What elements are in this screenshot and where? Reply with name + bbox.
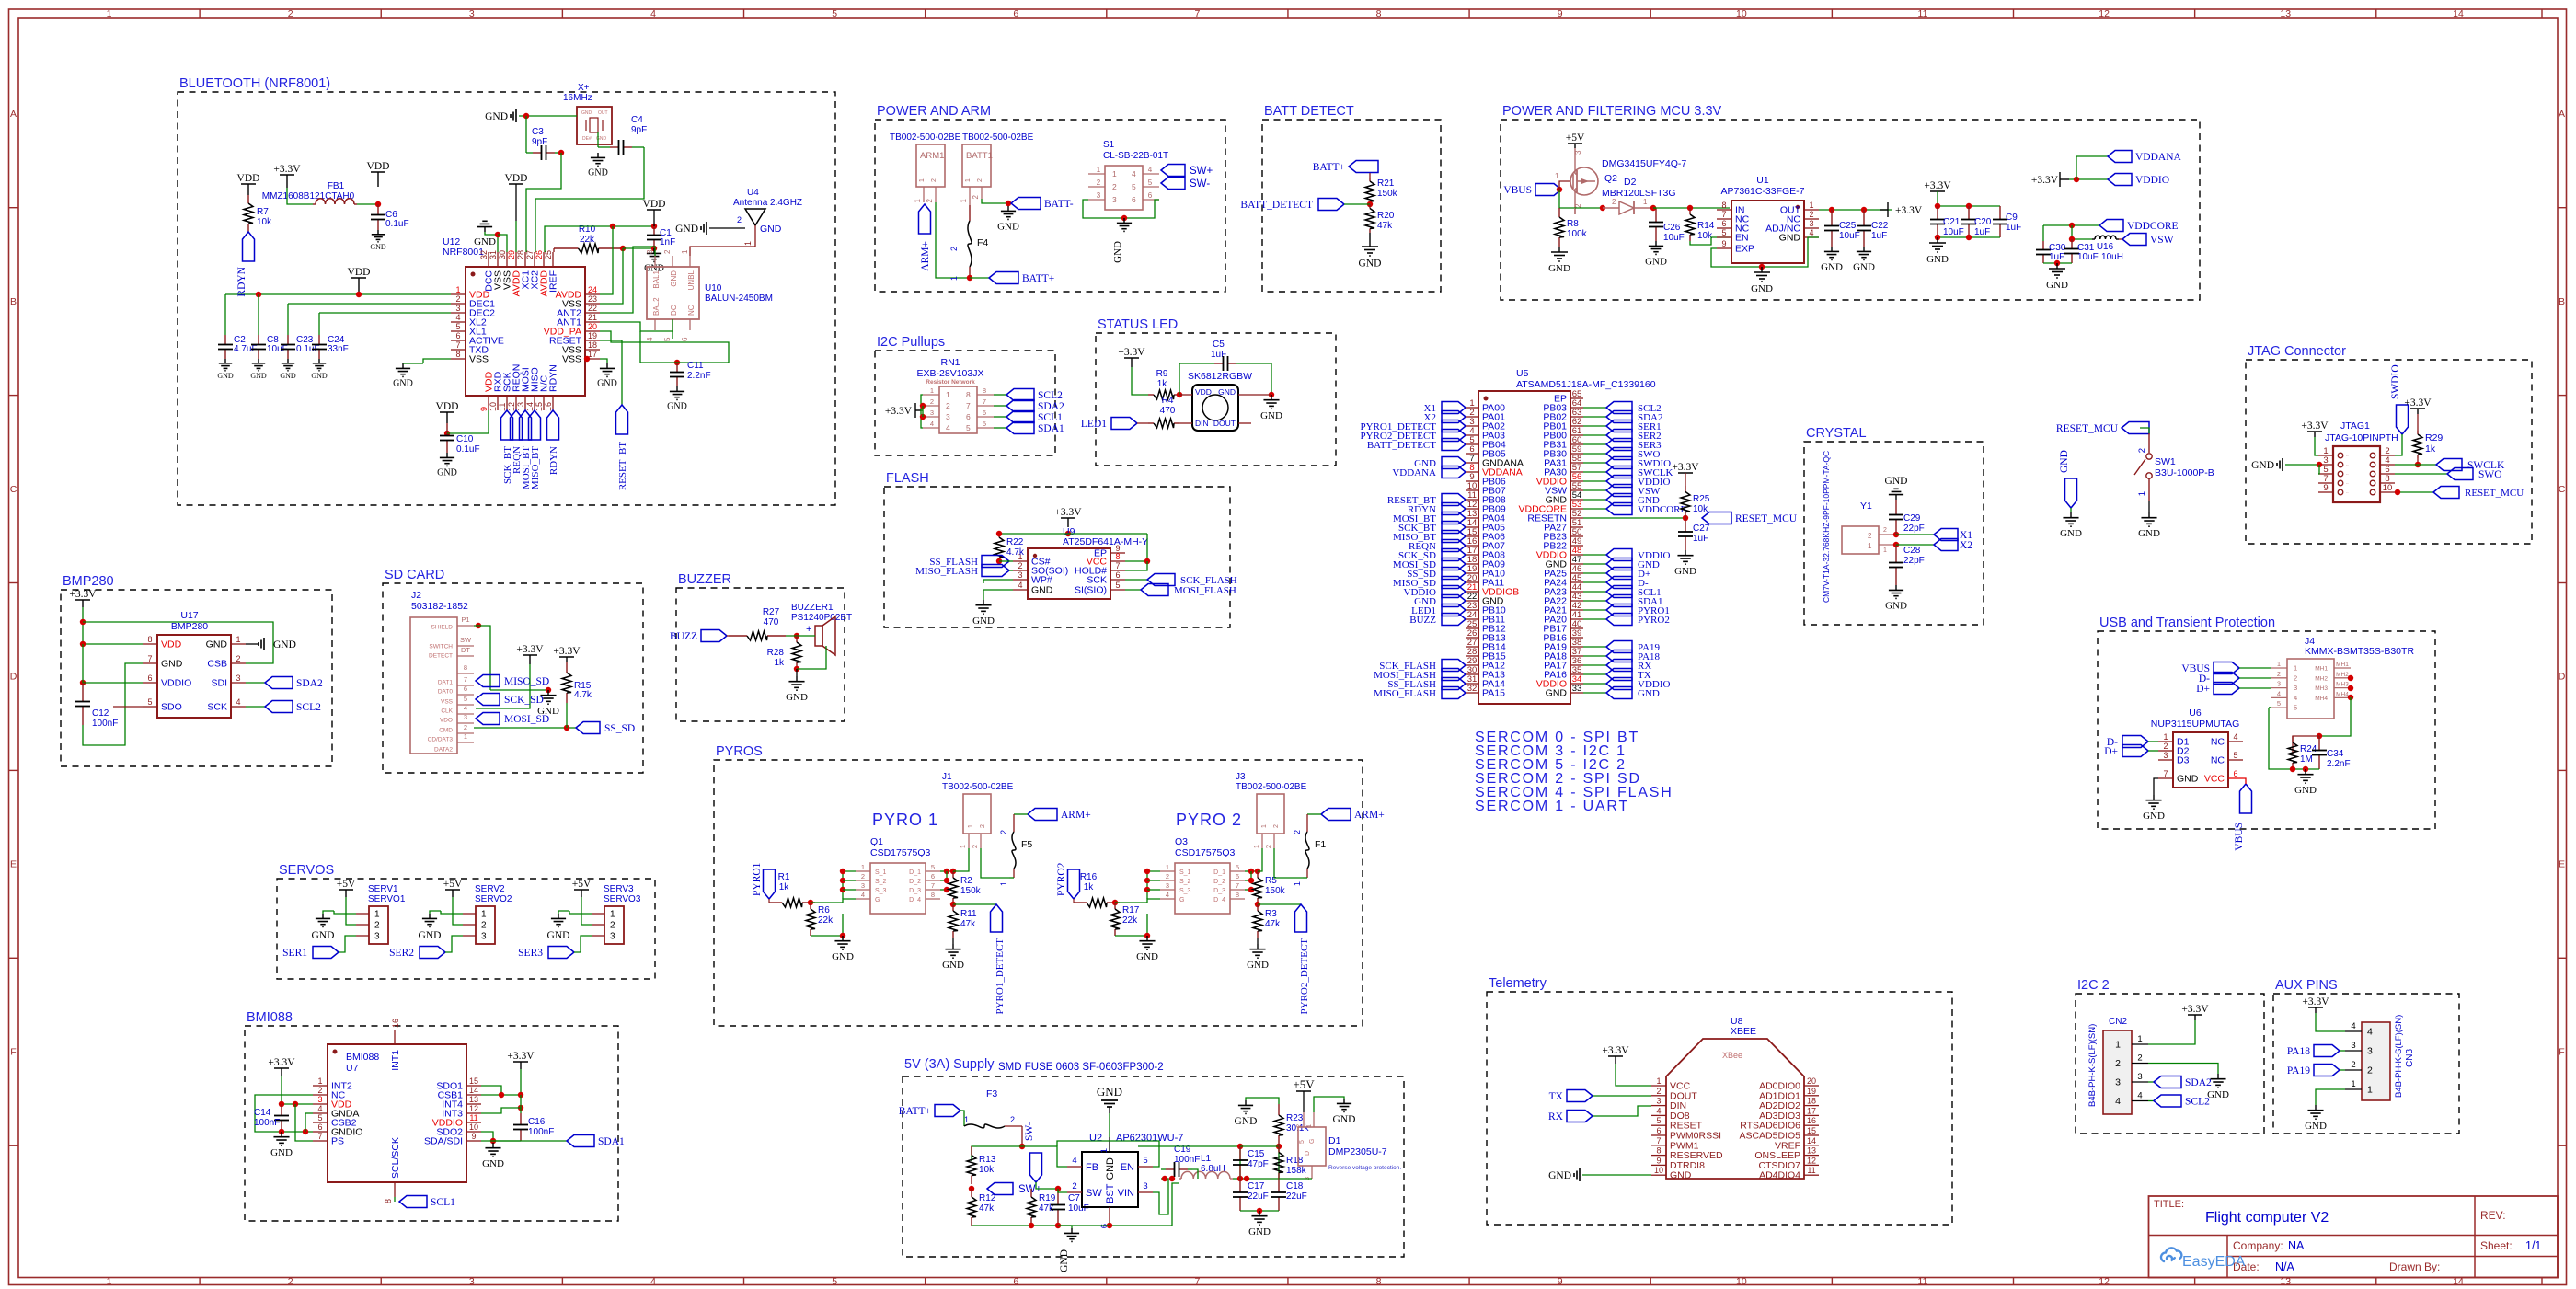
svg-text:RESET_BT: RESET_BT bbox=[617, 442, 628, 490]
svg-text:GND: GND bbox=[832, 951, 854, 962]
ground under C27 bbox=[1685, 550, 1686, 556]
resistor R18 bbox=[1278, 1146, 1280, 1153]
svg-text:2: 2 bbox=[1166, 872, 1169, 880]
svg-text:5: 5 bbox=[1721, 228, 1726, 237]
svg-text:+3.3V: +3.3V bbox=[69, 589, 97, 600]
svg-text:D_2: D_2 bbox=[909, 879, 921, 885]
svg-text:30: 30 bbox=[498, 250, 507, 259]
power flag +3.3V (FB1) bbox=[280, 174, 294, 176]
net flag SW+ bbox=[1161, 165, 1185, 177]
RN1 pin 8 bbox=[977, 394, 994, 396]
svg-text:MISO_BT: MISO_BT bbox=[530, 446, 541, 489]
net flag SW- (rotated) bbox=[1030, 1153, 1042, 1182]
svg-text:12: 12 bbox=[2099, 8, 2110, 19]
power +3.3V bmp280 bbox=[75, 599, 90, 601]
svg-text:7: 7 bbox=[147, 654, 152, 663]
svg-text:DC: DC bbox=[670, 305, 678, 316]
JTAG1 pin 2 bbox=[2380, 455, 2395, 456]
svg-text:C3: C3 bbox=[532, 127, 544, 137]
svg-text:CMD: CMD bbox=[439, 728, 453, 734]
svg-text:10: 10 bbox=[1736, 1276, 1747, 1287]
U5 pin 29 PA12 bbox=[1466, 664, 1478, 666]
svg-text:GND: GND bbox=[581, 110, 592, 116]
svg-text:3: 3 bbox=[861, 881, 865, 890]
transistor Q2 DMG3415UFY4Q-7 bbox=[1570, 167, 1598, 195]
svg-text:1k: 1k bbox=[774, 658, 785, 668]
capacitor C21 bbox=[1937, 206, 1938, 220]
svg-text:G: G bbox=[1179, 897, 1184, 903]
flash pin 4 GND bbox=[1013, 589, 1028, 591]
svg-text:1: 1 bbox=[1643, 198, 1648, 206]
svg-text:F3: F3 bbox=[986, 1088, 997, 1099]
capacitor C10 bbox=[446, 423, 448, 436]
svg-text:8: 8 bbox=[455, 350, 460, 359]
JTAG1 pin 5 bbox=[2318, 473, 2333, 475]
svg-text:VDD: VDD bbox=[436, 401, 459, 412]
wire +3.3V to pin4 bbox=[2316, 1013, 2345, 1031]
net flag REQN (U5 pin 16) bbox=[1442, 540, 1466, 552]
svg-text:GND: GND bbox=[675, 224, 698, 235]
wire R10 to VSS pin23 bbox=[600, 248, 623, 304]
svg-text:1k: 1k bbox=[2425, 443, 2436, 455]
power +5V servo1 bbox=[339, 889, 353, 891]
svg-text:12: 12 bbox=[469, 1104, 478, 1113]
U12 pin 1 VDD bbox=[451, 293, 466, 295]
U8 pin 2 DOUT bbox=[1651, 1095, 1666, 1097]
svg-text:U5: U5 bbox=[1516, 368, 1529, 379]
wire source to ground Q1 bbox=[811, 914, 843, 936]
svg-text:5: 5 bbox=[1236, 863, 1239, 871]
svg-text:12: 12 bbox=[1807, 1156, 1816, 1165]
svg-text:2: 2 bbox=[2137, 1053, 2142, 1064]
svg-text:23: 23 bbox=[588, 294, 597, 304]
U12 pin 32 DCC bbox=[488, 252, 489, 267]
svg-text:+3.3V: +3.3V bbox=[2302, 996, 2329, 1007]
svg-text:PYRO1: PYRO1 bbox=[752, 862, 763, 896]
wire VBUS to mosfet gate bbox=[1559, 190, 1575, 208]
svg-text:1: 1 bbox=[1261, 824, 1268, 828]
svg-text:BUZZER1: BUZZER1 bbox=[791, 603, 834, 613]
capacitor C22 bbox=[1863, 210, 1865, 226]
svg-text:3: 3 bbox=[236, 673, 240, 683]
svg-text:+3.3V: +3.3V bbox=[1924, 180, 1951, 191]
svg-text:GND: GND bbox=[1248, 1226, 1271, 1237]
svg-text:47k: 47k bbox=[1377, 221, 1393, 231]
JTAG1 pin 6 bbox=[2380, 473, 2395, 475]
U17 pin 6 VDDIO bbox=[143, 682, 157, 684]
ground VDDCORE caps bbox=[2056, 263, 2058, 269]
ground under R8 bbox=[1558, 247, 1560, 252]
svg-text:RDYN: RDYN bbox=[236, 266, 247, 296]
wire cap bank bottom bbox=[1938, 236, 2000, 238]
U8 pin 18 AD2DIO2 bbox=[1804, 1105, 1819, 1107]
power +3.3V BMI right bbox=[513, 1061, 528, 1063]
power flag +5V bbox=[1568, 143, 1582, 144]
power +3.3V status led bbox=[1124, 357, 1139, 359]
svg-text:MMZ1608B121CTAH0: MMZ1608B121CTAH0 bbox=[262, 191, 355, 201]
U2 pin 5 EN bbox=[1138, 1166, 1153, 1168]
svg-text:2: 2 bbox=[663, 249, 672, 254]
svg-text:9: 9 bbox=[1558, 8, 1563, 19]
wire J1 pin1 to drain bbox=[953, 848, 969, 871]
wire RESETN to RESET_MCU bbox=[1583, 517, 1685, 519]
svg-text:16: 16 bbox=[391, 1019, 400, 1028]
wire GND pin7 loop bbox=[83, 663, 143, 745]
svg-text:SDA2: SDA2 bbox=[296, 678, 323, 689]
svg-text:BUZZ: BUZZ bbox=[1409, 615, 1436, 626]
wire top loop to CSB bbox=[83, 622, 273, 663]
resistor R15 bbox=[566, 662, 568, 673]
svg-text:LED1: LED1 bbox=[1081, 419, 1107, 430]
svg-text:+5V: +5V bbox=[1566, 132, 1585, 144]
net flag SER3 bbox=[548, 947, 574, 959]
net flag X1 (U5 pin 1) bbox=[1442, 402, 1466, 414]
U5 pin 36 PA17 bbox=[1570, 664, 1583, 666]
svg-text:2: 2 bbox=[971, 845, 979, 848]
wire caps bottom bbox=[2043, 262, 2072, 264]
svg-text:100nF: 100nF bbox=[1174, 1155, 1200, 1165]
ground under R11 bbox=[952, 938, 954, 944]
svg-text:AP62301WU-7: AP62301WU-7 bbox=[1116, 1133, 1183, 1144]
svg-text:VSS: VSS bbox=[562, 354, 581, 365]
svg-text:22uF: 22uF bbox=[1286, 1191, 1307, 1202]
wire VDD rail left bbox=[282, 1076, 313, 1104]
svg-text:R29: R29 bbox=[2425, 432, 2443, 443]
U5 pin 15 PA06 bbox=[1466, 535, 1478, 537]
svg-text:JTAG1: JTAG1 bbox=[2340, 420, 2370, 432]
svg-text:C10: C10 bbox=[456, 434, 474, 444]
section box: AUX PINS bbox=[2273, 994, 2459, 1134]
svg-text:13: 13 bbox=[516, 402, 525, 411]
svg-text:2: 2 bbox=[236, 654, 240, 663]
svg-text:GND: GND bbox=[1097, 1085, 1122, 1099]
section box: CRYSTAL bbox=[1804, 442, 1984, 625]
svg-text:U2: U2 bbox=[1089, 1133, 1102, 1144]
svg-text:28: 28 bbox=[516, 250, 525, 259]
svg-text:BST: BST bbox=[1105, 1183, 1116, 1203]
svg-text:GND: GND bbox=[1548, 263, 1570, 274]
svg-text:7: 7 bbox=[1194, 1276, 1200, 1287]
U5 pin 5 PB04 bbox=[1466, 443, 1478, 445]
svg-text:USB and Transient Protection: USB and Transient Protection bbox=[2099, 616, 2275, 630]
svg-text:16: 16 bbox=[1807, 1116, 1816, 1125]
wire to C2 bbox=[224, 294, 226, 335]
svg-text:100nF: 100nF bbox=[528, 1127, 554, 1137]
svg-text:R1: R1 bbox=[778, 872, 790, 882]
svg-text:10uF: 10uF bbox=[1943, 227, 1964, 237]
wire C4 to XC2 bbox=[535, 147, 644, 252]
U8 pin 1 VCC bbox=[1651, 1085, 1666, 1087]
svg-text:1: 1 bbox=[2367, 1085, 2373, 1096]
U5 pin 18 PA09 bbox=[1466, 563, 1478, 565]
svg-text:RESET_MCU: RESET_MCU bbox=[1735, 513, 1798, 524]
svg-text:3: 3 bbox=[1166, 881, 1169, 890]
U12 pin 15 N/C bbox=[543, 396, 545, 410]
svg-text:3: 3 bbox=[2294, 684, 2297, 692]
svg-text:6: 6 bbox=[983, 409, 986, 417]
U5 pin 10 PB07 bbox=[1466, 489, 1478, 491]
svg-text:1: 1 bbox=[1555, 172, 1559, 180]
net flag X1 bbox=[1896, 534, 1934, 535]
net flag D- (J4) bbox=[2214, 673, 2239, 685]
JTAG1 pin 8 bbox=[2380, 482, 2395, 484]
J4 pin MH1 bbox=[2334, 667, 2351, 669]
U1 pin 9 EXP bbox=[1717, 247, 1731, 249]
svg-text:SERVOS: SERVOS bbox=[279, 863, 334, 878]
ground under C10 bbox=[446, 453, 448, 457]
svg-text:R21: R21 bbox=[1377, 178, 1395, 189]
RN1 pin 6 bbox=[977, 416, 994, 418]
svg-text:ARM+: ARM+ bbox=[1354, 810, 1385, 821]
svg-text:BATT+: BATT+ bbox=[899, 1106, 931, 1117]
U5 pin 8 VDDANA bbox=[1466, 471, 1478, 473]
svg-text:U6: U6 bbox=[2189, 708, 2202, 719]
svg-text:24: 24 bbox=[588, 285, 597, 294]
wire source bus Q1 bbox=[843, 871, 856, 899]
ground flag xbee bbox=[1579, 1168, 1581, 1181]
J2 pin 7 bbox=[457, 685, 474, 686]
power flag VDD (R7) bbox=[241, 183, 256, 185]
svg-text:EasyEDA: EasyEDA bbox=[2182, 1254, 2246, 1270]
svg-text:BATT+: BATT+ bbox=[1022, 273, 1054, 284]
svg-text:PYRO 2: PYRO 2 bbox=[1176, 811, 1242, 829]
svg-text:4.7k: 4.7k bbox=[1006, 547, 1025, 558]
svg-text:RX: RX bbox=[1548, 1111, 1564, 1122]
svg-text:Sheet:: Sheet: bbox=[2480, 1239, 2513, 1252]
fuse F1 bbox=[1306, 814, 1308, 832]
svg-text:2: 2 bbox=[1883, 527, 1887, 534]
svg-text:1: 1 bbox=[1252, 845, 1260, 848]
svg-text:S_3: S_3 bbox=[875, 888, 887, 894]
svg-text:C5: C5 bbox=[1213, 340, 1225, 350]
U12 pin 23 VSS bbox=[585, 303, 600, 305]
capacitor C2 bbox=[224, 335, 226, 345]
connector CN3 B4B-PH-K-S(LF)(SN) bbox=[2362, 1022, 2390, 1100]
U12 pin 3 DEC2 bbox=[451, 312, 466, 314]
U2 pin 2 SW bbox=[1067, 1191, 1082, 1193]
U8 pin 10 GND bbox=[1651, 1174, 1666, 1176]
U8 pin 14 VREF bbox=[1804, 1145, 1819, 1146]
svg-text:5: 5 bbox=[2277, 699, 2281, 708]
U7 pin 12 INT3 bbox=[466, 1112, 481, 1114]
svg-text:CSD17575Q3: CSD17575Q3 bbox=[1175, 847, 1236, 858]
svg-text:GND: GND bbox=[1670, 1170, 1692, 1181]
svg-text:8: 8 bbox=[983, 386, 986, 395]
svg-text:16: 16 bbox=[544, 402, 553, 411]
svg-text:DOUT: DOUT bbox=[1213, 419, 1236, 428]
U7 pin 10 SDO2 bbox=[466, 1131, 481, 1133]
U5 pin 17 PA08 bbox=[1466, 554, 1478, 556]
svg-text:BALUN-2450BM: BALUN-2450BM bbox=[705, 293, 773, 304]
svg-text:1: 1 bbox=[2137, 491, 2147, 496]
U5 pin 52 RESETN bbox=[1570, 517, 1583, 519]
CN2 pin 2 bbox=[2132, 1063, 2148, 1065]
svg-text:R8: R8 bbox=[1567, 219, 1579, 229]
net flag MISO_SD (U5 pin 20) bbox=[1442, 577, 1466, 589]
net flag VBUS (U6) bbox=[2240, 784, 2252, 813]
svg-text:R12: R12 bbox=[979, 1193, 996, 1203]
U12 pin 27 XC2 bbox=[534, 252, 535, 267]
svg-text:5: 5 bbox=[2294, 704, 2297, 712]
section box: JTAG Connector bbox=[2246, 360, 2532, 544]
wire source to ground Q3 bbox=[1115, 914, 1147, 936]
ground flag jtag bbox=[2282, 458, 2283, 471]
U5 pin 38 PA19 bbox=[1570, 646, 1583, 648]
net flag PA19 bbox=[2314, 1065, 2340, 1076]
wire J3 pin1 to drain bbox=[1258, 848, 1262, 871]
capacitor C27 bbox=[1685, 518, 1686, 532]
wire BATT1 pin2 to BATT- bbox=[982, 199, 1008, 203]
wire AVDD rail bbox=[545, 226, 654, 252]
wire VDD pin bbox=[1179, 394, 1192, 396]
capacitor C14 bbox=[281, 1104, 282, 1116]
svg-text:R11: R11 bbox=[960, 909, 977, 919]
U12 pin 11 SCK bbox=[506, 396, 508, 410]
svg-text:GND: GND bbox=[942, 960, 964, 971]
svg-text:C25: C25 bbox=[1839, 221, 1857, 231]
U5 pin 45 PA24 bbox=[1570, 581, 1583, 583]
svg-text:GND: GND bbox=[312, 930, 335, 941]
svg-text:RDYN: RDYN bbox=[548, 446, 559, 475]
svg-text:1: 1 bbox=[964, 1115, 969, 1124]
transistor D1 DMP2305U-7 bbox=[1298, 1127, 1326, 1166]
svg-text:D: D bbox=[1305, 1151, 1311, 1156]
svg-text:ARM1: ARM1 bbox=[920, 151, 944, 161]
svg-text:3: 3 bbox=[374, 932, 380, 942]
svg-text:DETECT: DETECT bbox=[429, 653, 453, 660]
svg-text:6: 6 bbox=[1721, 219, 1726, 228]
svg-text:GND: GND bbox=[437, 467, 457, 478]
svg-text:47k: 47k bbox=[979, 1203, 995, 1214]
svg-text:VBUS: VBUS bbox=[2234, 823, 2245, 851]
svg-text:2: 2 bbox=[1293, 830, 1302, 834]
wire MH ground net bbox=[2319, 697, 2351, 736]
net flag SDA2 (CN2) bbox=[2148, 1081, 2154, 1083]
wire output to D1 bbox=[1279, 1178, 1312, 1180]
net flag LED1 (U5 pin 23) bbox=[1442, 604, 1466, 616]
ground below crystal caps bbox=[1895, 585, 1897, 590]
wire DEC1 bbox=[288, 303, 451, 305]
U8 pin 11 AD4DIO4 bbox=[1804, 1174, 1819, 1176]
svg-text:7: 7 bbox=[1194, 8, 1200, 19]
svg-text:31: 31 bbox=[489, 250, 498, 259]
svg-text:BATT+: BATT+ bbox=[1313, 162, 1345, 173]
wire right rail bbox=[481, 1069, 521, 1095]
svg-text:0.1uF: 0.1uF bbox=[385, 219, 409, 229]
svg-text:2: 2 bbox=[1072, 1181, 1076, 1191]
section box: FLASH bbox=[884, 487, 1230, 627]
power +3.3V jtag right bbox=[2410, 408, 2425, 409]
fuse F5 bbox=[1013, 814, 1015, 832]
svg-text:5V (3A) Supply: 5V (3A) Supply bbox=[904, 1057, 995, 1072]
svg-text:6: 6 bbox=[455, 331, 460, 340]
svg-text:10uF: 10uF bbox=[1663, 233, 1685, 243]
svg-text:GND: GND bbox=[1136, 951, 1158, 962]
U5 pin 32 PA15 bbox=[1466, 692, 1478, 694]
svg-text:GND: GND bbox=[1112, 241, 1123, 263]
svg-text:10k: 10k bbox=[979, 1165, 995, 1175]
svg-text:MH4: MH4 bbox=[2315, 696, 2328, 702]
svg-text:7: 7 bbox=[464, 675, 467, 684]
svg-text:GND: GND bbox=[2138, 528, 2160, 539]
net flag SER2 bbox=[420, 947, 445, 959]
svg-text:2: 2 bbox=[2137, 448, 2147, 453]
ground flag antenna bbox=[706, 222, 707, 235]
wire PS tie high bbox=[295, 1104, 313, 1141]
svg-text:3: 3 bbox=[946, 412, 950, 421]
svg-text:VDO: VDO bbox=[440, 718, 453, 724]
svg-text:4: 4 bbox=[464, 704, 467, 712]
U8 pin 3 DIN bbox=[1651, 1105, 1666, 1107]
svg-text:2: 2 bbox=[980, 824, 986, 828]
resistor R17 22k bbox=[1114, 903, 1116, 909]
svg-text:MISO_FLASH: MISO_FLASH bbox=[915, 566, 978, 577]
svg-text:14: 14 bbox=[469, 1086, 478, 1095]
CN2 pin 1 bbox=[2132, 1043, 2148, 1045]
svg-text:6: 6 bbox=[1236, 872, 1239, 880]
svg-text:+5V: +5V bbox=[572, 879, 592, 890]
ground under C16 bbox=[492, 1143, 494, 1148]
svg-text:7: 7 bbox=[317, 1132, 322, 1141]
svg-text:RDYN: RDYN bbox=[548, 364, 559, 392]
section box: SERVOS bbox=[277, 879, 655, 979]
svg-text:DE#: DE# bbox=[582, 136, 592, 142]
svg-text:C21: C21 bbox=[1943, 217, 1961, 227]
U5 pin 23 PB10 bbox=[1466, 609, 1478, 611]
svg-text:10: 10 bbox=[489, 402, 498, 411]
flash pin 3 WP# bbox=[1013, 579, 1028, 581]
svg-text:8: 8 bbox=[464, 663, 467, 672]
svg-text:4: 4 bbox=[1656, 1106, 1661, 1115]
net flag SWDIO (U5 pin 58) bbox=[1583, 462, 1606, 464]
svg-text:1: 1 bbox=[2163, 732, 2168, 742]
wire S1 ground loop bbox=[1083, 200, 1159, 218]
svg-text:1: 1 bbox=[1306, 1124, 1313, 1128]
svg-text:2: 2 bbox=[926, 198, 934, 202]
svg-text:9pF: 9pF bbox=[631, 125, 647, 135]
net flag SCL2 bbox=[994, 394, 1006, 396]
svg-text:R28: R28 bbox=[767, 648, 785, 658]
RN1 pin 7 bbox=[977, 405, 994, 407]
net flag SS_SD (U5 pin 19) bbox=[1442, 568, 1466, 580]
svg-text:3: 3 bbox=[610, 932, 615, 942]
net flag RESET_MCU (jtag) bbox=[2395, 491, 2433, 493]
svg-text:TB002-500-02BE: TB002-500-02BE bbox=[890, 132, 961, 143]
svg-text:R13: R13 bbox=[979, 1155, 996, 1165]
svg-text:3: 3 bbox=[2367, 1046, 2373, 1057]
svg-text:GND: GND bbox=[250, 372, 267, 380]
svg-text:1k: 1k bbox=[1157, 379, 1168, 389]
svg-text:SER1: SER1 bbox=[282, 948, 307, 959]
svg-text:SCK_SD: SCK_SD bbox=[504, 695, 544, 706]
capacitor C29 bbox=[1895, 500, 1897, 515]
svg-text:1uF: 1uF bbox=[2006, 223, 2021, 233]
wire R14 to EN bbox=[1690, 237, 1730, 245]
svg-text:+3.3V: +3.3V bbox=[2301, 420, 2329, 432]
svg-text:20: 20 bbox=[588, 322, 597, 331]
RN1 pin 5 bbox=[977, 427, 994, 429]
wire ARM1 pin2 to BATT+ bbox=[936, 202, 972, 278]
svg-text:C14: C14 bbox=[254, 1108, 271, 1118]
svg-text:22: 22 bbox=[588, 304, 597, 313]
U5 pin 53 VDDCORE bbox=[1570, 508, 1583, 510]
svg-text:2.2nF: 2.2nF bbox=[687, 371, 711, 381]
net flag SCL1 (U5 pin 44) bbox=[1583, 591, 1606, 593]
svg-text:5: 5 bbox=[983, 420, 986, 428]
svg-text:AD4DIO4: AD4DIO4 bbox=[1759, 1170, 1800, 1181]
RN1 pin 3 bbox=[923, 416, 939, 418]
svg-text:L1: L1 bbox=[1201, 1154, 1212, 1164]
